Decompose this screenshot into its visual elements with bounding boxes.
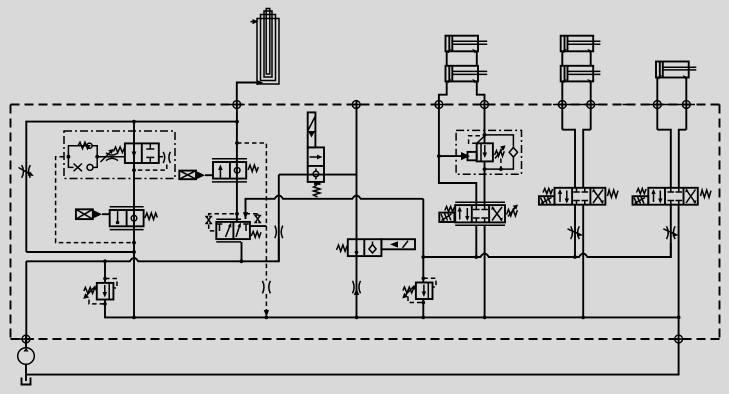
pilot X right of V3: [246, 214, 262, 223]
pilot dashed x266 long: [237, 143, 266, 281]
node junction x134 dashed tee: [132, 241, 136, 245]
node junction x134 line317: [132, 316, 136, 320]
node junction x237 y143: [235, 141, 239, 145]
pilot X left of V3: [205, 214, 237, 231]
telescopic cylinder CT: [251, 9, 280, 86]
node circle bottom dashed right: [675, 335, 683, 343]
node circle on dashed line x590.7: [587, 101, 595, 109]
wire V5 right port down: [582, 205, 584, 318]
pilot dashed loop left (x55.6): [56, 157, 134, 243]
node junction relief block feed: [437, 154, 441, 158]
enclosure dashed top border: [11, 104, 720, 106]
node junction x583.2 line317: [581, 316, 585, 320]
wire vertical x423.3 PB drop: [422, 199, 424, 282]
compensator valve body: [125, 143, 159, 163]
cylinder pair C1 upper body: [446, 36, 488, 54]
wire pair1 left drop to relief block: [439, 105, 476, 203]
wire C1 left port down: [439, 81, 447, 108]
arrow up on x356.5: [354, 288, 359, 295]
cylinder pair C2 lower body: [561, 66, 601, 84]
node junction x678.6 line317: [677, 316, 681, 320]
node comp valve drain: [132, 168, 136, 172]
enclosure dashed left border: [10, 105, 12, 340]
wire C2 left port down: [561, 81, 563, 129]
variable throttle on left rail: [19, 165, 34, 178]
V4 right spring: [507, 205, 519, 217]
node relief block top: [483, 133, 487, 137]
variable throttle before comp valve: [101, 149, 119, 162]
pilot dashed x266 tail with arrow: [265, 294, 267, 312]
tank T1: [22, 378, 31, 385]
cylinder pair C2 upper body: [561, 36, 601, 54]
wire V4 right port down: [484, 225, 486, 317]
cartridge valve K1: [308, 112, 324, 197]
pump P1: [18, 335, 35, 381]
node junction B1 relief1 input: [103, 259, 107, 263]
wire C1 right interlink: [476, 51, 478, 66]
wire vertical x278.6 with hop of PB line: [278, 175, 280, 262]
wire pair1 right drop through relief block: [484, 105, 486, 144]
node loop right: [95, 155, 99, 159]
node junction x356 line317: [355, 316, 359, 320]
directional valve V6: [648, 188, 698, 205]
wire C1 left interlink: [446, 51, 448, 66]
wire C3 right port down: [685, 78, 687, 130]
wire main vertical x134: [133, 122, 135, 318]
wire V4 left port down: [475, 225, 477, 257]
wire line C with hops: [423, 243, 671, 257]
node circle bottom dashed left (pump): [22, 335, 30, 343]
compensator bypass loop: [68, 142, 97, 171]
wire left rail lower vertical: [25, 261, 27, 343]
node circle on dashed line x355.9: [352, 101, 360, 109]
node junction x423 lineC: [421, 255, 425, 259]
wire C2 right port down: [590, 81, 592, 129]
wire funnel valve5 right: [583, 130, 591, 188]
wire power-beyond line y198.8 with hops: [246, 195, 424, 219]
solenoid valve V2 (x237 row): [179, 159, 258, 182]
node circle on dashed line x438.9: [435, 101, 443, 109]
node junction C2: [573, 255, 577, 259]
wire V3 bottom port down: [241, 242, 243, 261]
orifice on x278.6: [275, 226, 283, 239]
wire funnel valve5 left: [562, 130, 575, 188]
spring comp valve pilot: [114, 147, 125, 153]
node junction A2: [235, 120, 239, 124]
relief block feed arrow: [439, 152, 477, 160]
enclosure dashed bottom border: [11, 338, 720, 340]
middle valve V4m: [337, 239, 416, 256]
node junction A1: [132, 120, 136, 124]
node junction C1: [474, 255, 478, 259]
node junction x237 y214: [235, 212, 239, 216]
wire tank header line y317.4: [105, 300, 679, 318]
wire P rail upper left vertical: [26, 122, 237, 252]
wire V4 top ports up: [475, 202, 477, 205]
cylinder pair C1 lower body: [446, 66, 488, 84]
V5 left proportional solenoid: [539, 189, 555, 205]
wire relief2 drain: [422, 299, 424, 317]
orifice on x356.5 lower: [353, 281, 361, 294]
wire C1 right port down: [477, 81, 485, 108]
node junction x484.6 line317: [483, 316, 487, 320]
wire C2 left interlink: [561, 51, 563, 66]
V6 right spring: [701, 190, 711, 198]
wire relief block below: [484, 161, 486, 202]
wire line B with hop at x=134: [26, 239, 278, 262]
wire C2 right interlink: [590, 51, 592, 66]
node junction x423 line317: [421, 316, 425, 320]
node circle on dashed line x562.3: [558, 101, 566, 109]
node circle on dashed line x657.3: [653, 101, 661, 109]
node relief block bottom: [499, 167, 503, 171]
node junction x266 line317: [265, 316, 269, 320]
node solid stubs on dashed line: [18, 105, 695, 340]
wire bottom return rail: [26, 205, 679, 375]
node junction B2 valve3 drain: [240, 259, 244, 263]
wire V6 left port down: [670, 205, 672, 257]
wire LS line y174.6: [279, 174, 357, 176]
wire C3 left port down: [656, 78, 658, 130]
arrow down on dashed x266: [264, 310, 269, 317]
directional valve V4: [455, 202, 505, 225]
node junction A3: [132, 250, 136, 254]
relief block bypass with check: [485, 135, 518, 169]
relief block spring adj: [495, 145, 506, 169]
enclosure dashed right border: [719, 105, 721, 340]
wire funnel valve6 left: [657, 130, 671, 188]
node loop left: [67, 155, 71, 159]
wire telescopic to node: [237, 83, 257, 105]
node relief block bottom tee: [483, 167, 487, 171]
relief valve RV1: [83, 261, 117, 305]
wire V5 left port down: [574, 205, 576, 257]
relief block pilot dashed top left: [469, 136, 485, 144]
relief block dash-dot enclosure: [456, 130, 521, 174]
wire funnel valve6 right: [679, 130, 687, 188]
relief block valve RB1: [477, 143, 493, 161]
node circle on dashed line x236.8: [233, 101, 241, 109]
V5 right spring: [608, 190, 618, 198]
pilot dashed right of comp valve with orifice: [134, 152, 170, 170]
compensator dash-dot enclosure: [64, 131, 175, 179]
node circle on dashed line x484.4: [481, 101, 489, 109]
V6 left proportional solenoid: [633, 189, 649, 205]
V4 left proportional solenoid: [439, 207, 454, 223]
cylinder C3 single body: [656, 62, 696, 80]
wire main vertical x356.5: [356, 100, 358, 317]
pilot valve V3 (x237/245 row): [216, 219, 266, 242]
wire loop to comp valve: [97, 156, 125, 158]
variable throttle on V6 left drop: [663, 226, 679, 239]
arrow down into valve3 port: [243, 212, 248, 219]
relief valve RV2: [402, 277, 436, 305]
node circle on dashed line x686.3: [682, 101, 690, 109]
directional valve V5: [555, 188, 606, 205]
wire vertical x237 from node through valve2: [236, 105, 238, 223]
solenoid valve V1 (bottom left): [76, 207, 157, 230]
orifice on dashed x266: [262, 281, 270, 294]
wire line A: [26, 251, 134, 253]
variable throttle on V5 left drop: [568, 226, 584, 239]
